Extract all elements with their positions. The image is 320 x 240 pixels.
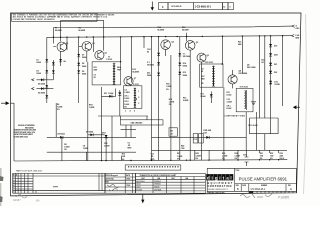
svg-text:3,3ØØ: 3,3ØØ bbox=[124, 92, 130, 94]
resistor R6 label bbox=[57, 104, 63, 111]
svg-text:DEC-2894: DEC-2894 bbox=[247, 66, 255, 69]
wire x101.5 down bbox=[101, 87, 103, 161]
svg-text:15: 15 bbox=[223, 6, 225, 8]
svg-text:UNLESS OTHERWISE: UNLESS OTHERWISE bbox=[18, 125, 35, 127]
label D8 bbox=[82, 63, 86, 68]
revision strip box drawing number bbox=[194, 3, 223, 10]
svg-text:4 2: 4 2 bbox=[13, 184, 15, 187]
svg-text:DEC: DEC bbox=[142, 178, 146, 180]
svg-text:C11: C11 bbox=[170, 130, 173, 132]
transistor Q3 bbox=[95, 51, 107, 60]
svg-text:E: E bbox=[290, 188, 292, 191]
svg-text:1-CS-6691-Ø-1: 1-CS-6691-Ø-1 bbox=[195, 6, 212, 9]
wire right edge column bbox=[282, 36, 284, 106]
wire diode column x177.2 bbox=[179, 37, 181, 161]
wire branch h96.3 bbox=[102, 89, 116, 97]
resistor R12 label bbox=[132, 69, 139, 74]
svg-text:86,ØØØ: 86,ØØØ bbox=[182, 30, 189, 32]
wire x120.6 stub bbox=[120, 37, 122, 62]
revision arrow top bbox=[151, 2, 154, 11]
svg-text:DRN M.Bergquist: DRN M.Bergquist bbox=[106, 174, 119, 177]
wire mid h137.5 left bbox=[47, 136, 136, 138]
svg-text:2 4: 2 4 bbox=[13, 179, 15, 182]
dotted pin strip bbox=[125, 165, 181, 170]
label D14 bbox=[183, 62, 187, 68]
wire diode chain D7 column bbox=[78, 37, 80, 103]
svg-text:D-662: D-662 bbox=[124, 98, 129, 100]
svg-text:DEC2894: DEC2894 bbox=[136, 181, 144, 183]
svg-text:Q7: Q7 bbox=[134, 78, 136, 80]
diode D5 horizontal bbox=[38, 78, 45, 85]
svg-text:ECO 6691-Ø: ECO 6691-Ø bbox=[172, 6, 182, 8]
svg-text:+1ØV: +1ØV bbox=[295, 28, 300, 30]
svg-text:D662: D662 bbox=[136, 187, 141, 189]
diode D21 bbox=[269, 63, 277, 66]
svg-text:3: 3 bbox=[125, 110, 126, 112]
diode D7 bbox=[77, 54, 80, 57]
svg-text:24Ø: 24Ø bbox=[280, 155, 284, 158]
resistor R22 cluster bbox=[177, 153, 183, 160]
svg-text:R19: R19 bbox=[182, 27, 185, 29]
title block size code row bbox=[236, 184, 293, 192]
wire R13 stub bbox=[121, 156, 123, 161]
svg-text:D664: D664 bbox=[82, 56, 86, 59]
wire C8 stub bbox=[85, 152, 87, 161]
resistor R16 label bbox=[183, 98, 189, 103]
wire x144 stub bbox=[143, 37, 145, 48]
svg-text:5%: 5% bbox=[260, 158, 263, 160]
wire input diode branch 2 bbox=[32, 87, 54, 89]
revision strip box ECO bbox=[159, 3, 169, 10]
wire x170.9 long bbox=[170, 55, 172, 160]
revision strip box chk bbox=[223, 3, 229, 10]
svg-text:PNP: PNP bbox=[117, 70, 121, 72]
diode D12 dark vertical bbox=[118, 90, 121, 116]
diode D4A bbox=[59, 59, 66, 63]
label component side row bbox=[225, 115, 246, 117]
junction dots on ground rail bbox=[53, 35, 284, 38]
wire x222.5 stub bbox=[222, 36, 224, 64]
parts list tiny fill text bbox=[13, 175, 58, 194]
handwritten marks below title block bbox=[240, 193, 289, 200]
capacitor C18 on bus bbox=[243, 150, 249, 166]
diode D6 bbox=[45, 95, 48, 98]
label T5 pins bbox=[227, 92, 233, 110]
conversion chart entries bbox=[136, 181, 161, 192]
svg-text:68Ø: 68Ø bbox=[201, 78, 205, 80]
arrow below chart bbox=[141, 194, 144, 203]
revision strip box description bbox=[168, 3, 194, 10]
wire bottom right h133.7 bbox=[250, 118, 279, 134]
transformer T2 winding bbox=[134, 88, 136, 108]
label D7 bbox=[82, 54, 86, 59]
svg-text:T2: T2 bbox=[128, 84, 130, 86]
wire input diode branch 1 bbox=[32, 79, 54, 81]
svg-text:86,ØØØ: 86,ØØØ bbox=[132, 72, 139, 74]
wire mid h137.4 right bbox=[152, 136, 247, 138]
capacitor C16 label bbox=[261, 59, 264, 64]
svg-text:R C D: R C D bbox=[13, 175, 18, 177]
transistor Q4 bbox=[161, 40, 174, 50]
parts list heading bbox=[16, 170, 42, 173]
transistor Q2 bbox=[79, 42, 95, 52]
svg-text:1Ø Ø7: 1Ø Ø7 bbox=[13, 198, 21, 202]
resistor R10 label bbox=[89, 105, 95, 110]
input arrow left margin bbox=[1, 101, 9, 105]
svg-text:D19: D19 bbox=[274, 45, 277, 47]
wire R1 column bbox=[52, 28, 54, 80]
svg-text:5%: 5% bbox=[270, 158, 273, 160]
svg-text:2R: 2R bbox=[201, 83, 204, 85]
svg-text:i: i bbox=[212, 176, 213, 181]
label D12 bbox=[147, 72, 151, 77]
svg-text:REV.: REV. bbox=[288, 185, 292, 187]
svg-text:2N D662: 2N D662 bbox=[147, 64, 154, 66]
connector A +10V bbox=[292, 24, 300, 30]
resistor R13 cluster bbox=[122, 154, 126, 161]
wire x246.2 below T5 bbox=[245, 112, 247, 151]
svg-text:Q5: Q5 bbox=[196, 42, 198, 44]
svg-text:D664: D664 bbox=[82, 65, 86, 68]
svg-text:D6 D664: D6 D664 bbox=[38, 91, 45, 94]
svg-text:6,8ØØ: 6,8ØØ bbox=[104, 146, 110, 148]
label T1 right pins bbox=[117, 67, 121, 72]
svg-text:CR-3 D-662: CR-3 D-662 bbox=[248, 125, 258, 127]
svg-text:1N748: 1N748 bbox=[136, 190, 142, 192]
svg-text:5%: 5% bbox=[166, 89, 169, 91]
drawing control table bbox=[105, 173, 136, 193]
wire Q7 collector bbox=[128, 85, 130, 87]
resistor R29 cluster bbox=[222, 153, 228, 160]
resistor R23 label bbox=[238, 42, 242, 47]
resistor R32 cluster bbox=[270, 153, 274, 160]
svg-text:THIS SCHEMATIC IS FURNISHED ON: THIS SCHEMATIC IS FURNISHED ONLY FOR TES… bbox=[13, 13, 115, 16]
svg-text:A: A bbox=[296, 24, 298, 27]
resistor R15 label bbox=[166, 84, 172, 91]
diode D11 bbox=[157, 62, 160, 65]
svg-text:R14: R14 bbox=[158, 26, 161, 29]
transformer T4 winding bbox=[212, 66, 215, 87]
svg-text:1/7/66: 1/7/66 bbox=[126, 185, 130, 187]
wire Q8 collector bbox=[232, 70, 234, 88]
svg-text:D22: D22 bbox=[274, 72, 277, 74]
svg-text:l: l bbox=[230, 176, 231, 181]
svg-text:SIZE: SIZE bbox=[236, 185, 239, 187]
svg-text:CORPORATION: CORPORATION bbox=[208, 185, 232, 188]
label Q8 DEC type bbox=[239, 71, 247, 76]
svg-text:D664: D664 bbox=[37, 72, 41, 75]
diode D15 bbox=[178, 72, 181, 75]
zener D23 bbox=[269, 81, 280, 86]
wire R9 stub bbox=[61, 137, 63, 161]
svg-text:R2: R2 bbox=[79, 27, 81, 29]
svg-text:6,8ØØ: 6,8ØØ bbox=[183, 100, 189, 102]
wire diode column x158.6 bbox=[158, 37, 160, 161]
svg-text:DATE: DATE bbox=[126, 174, 130, 177]
diode D20 bbox=[269, 53, 278, 56]
diode D2 bbox=[45, 70, 48, 73]
capacitor C11 box bbox=[169, 128, 177, 136]
diode D14 bbox=[178, 63, 181, 66]
svg-text:D11: D11 bbox=[104, 93, 107, 95]
resistor R12A cluster bbox=[104, 143, 110, 148]
svg-text:4: 4 bbox=[130, 109, 131, 112]
diode D9A horizontal bbox=[86, 130, 93, 136]
svg-text:D664: D664 bbox=[183, 74, 187, 77]
wire ground bus bottom bbox=[14, 160, 287, 161]
diode D1 bbox=[45, 59, 48, 62]
svg-text:5%: 5% bbox=[235, 158, 238, 160]
svg-text:86,ØØØ: 86,ØØØ bbox=[158, 30, 165, 32]
svg-text:D664: D664 bbox=[136, 184, 141, 186]
title block printed circuit rev row bbox=[208, 191, 293, 194]
resistor R18 label bbox=[169, 99, 175, 106]
svg-text:COMPONENT SIDE: COMPONENT SIDE bbox=[225, 115, 246, 117]
resistor R26 cluster bbox=[181, 145, 185, 150]
parts list table bbox=[13, 173, 105, 193]
label D17 bbox=[201, 93, 206, 98]
diode D8A horizontal on bus bbox=[58, 132, 65, 138]
junction dots on bottom bus bbox=[101, 159, 279, 161]
svg-text:TRANSISTOR & DIODE CONVERSION: TRANSISTOR & DIODE CONVERSION CHART bbox=[140, 174, 178, 177]
label T4 pins bbox=[201, 68, 205, 85]
svg-text:68Ø: 68Ø bbox=[238, 44, 242, 46]
wire resistor stubs to bus right bbox=[195, 150, 279, 160]
svg-text:D-662: D-662 bbox=[227, 95, 232, 97]
wire x120.5 bbox=[120, 116, 122, 120]
handwritten mark below parts list bbox=[13, 194, 40, 202]
diode D3 bbox=[52, 62, 55, 65]
diode D4 bbox=[52, 70, 55, 73]
wire ground rail bbox=[47, 36, 292, 38]
label T2 bottom pins bbox=[125, 109, 135, 112]
wire x191 Q5 down bbox=[189, 50, 191, 160]
svg-text:D-662: D-662 bbox=[227, 108, 232, 110]
svg-text:i: i bbox=[219, 176, 220, 181]
diode D10 bbox=[157, 53, 160, 56]
node T1 top right bbox=[120, 61, 121, 62]
wire x131.6 bbox=[131, 37, 133, 83]
svg-text:C18: C18 bbox=[243, 154, 246, 156]
diode D8 bbox=[77, 63, 80, 66]
svg-text:D21: D21 bbox=[274, 64, 277, 66]
svg-text:D-664: D-664 bbox=[108, 92, 113, 95]
svg-text:C13: C13 bbox=[194, 139, 197, 141]
capacitor C9 cluster bbox=[128, 142, 133, 149]
wire Q2 emitter column bbox=[86, 51, 88, 62]
label D9 bbox=[82, 71, 86, 76]
diode D9 bbox=[77, 70, 80, 73]
wire Q6 emitter bbox=[201, 62, 203, 160]
svg-text:86,ØØØ: 86,ØØØ bbox=[55, 30, 62, 32]
wire x151.5 long bbox=[151, 37, 153, 161]
resistor R2 label bbox=[79, 27, 86, 32]
svg-text:2R: 2R bbox=[124, 106, 127, 108]
transformer T2 box bbox=[123, 84, 141, 108]
wire Q4 bottom bbox=[165, 49, 167, 56]
transistor Q8 bbox=[228, 75, 237, 84]
resistor R11 label inside T1 bbox=[94, 67, 98, 79]
resistor R30 cluster bbox=[235, 153, 241, 160]
svg-text:P1ØØ5: P1ØØ5 bbox=[278, 196, 289, 200]
wire x93 stub bbox=[92, 37, 94, 52]
svg-text:D5 D664: D5 D664 bbox=[38, 83, 45, 86]
ground symbol T5 bbox=[251, 102, 256, 105]
border frame bbox=[11, 13, 302, 196]
wire left h155.7 bbox=[47, 151, 136, 153]
notes unless otherwise indicated bbox=[14, 125, 37, 139]
svg-text:1N748A: 1N748A bbox=[154, 189, 162, 192]
scan page edge shadow right bbox=[304, 14, 307, 194]
svg-text:D1Ø: D1Ø bbox=[102, 133, 106, 135]
svg-text:g: g bbox=[215, 176, 218, 181]
svg-text:82: 82 bbox=[201, 71, 203, 73]
svg-text:5%: 5% bbox=[169, 104, 172, 106]
svg-text:C4: C4 bbox=[124, 89, 126, 92]
svg-text:MAYNARD. MASSACHUSETTS: MAYNARD. MASSACHUSETTS bbox=[208, 188, 228, 191]
capacitor C8 cluster bbox=[83, 146, 89, 151]
capacitor C12 cluster bbox=[151, 154, 156, 161]
svg-text:D8 D664: D8 D664 bbox=[58, 132, 65, 135]
label U2 bbox=[247, 64, 255, 69]
svg-text:D664: D664 bbox=[183, 65, 187, 68]
capacitor C13 box bbox=[193, 134, 203, 143]
transformer T1 winding bbox=[113, 63, 116, 85]
svg-text:TITLE: TITLE bbox=[235, 170, 239, 172]
wire h116 bbox=[98, 115, 148, 117]
svg-text:5%: 5% bbox=[196, 158, 199, 160]
transistor Q1 bbox=[53, 42, 68, 52]
wire x242.4 stub bbox=[241, 36, 243, 74]
label D15 bbox=[183, 72, 187, 77]
svg-text:CHK R.Hills: CHK R.Hills bbox=[106, 179, 115, 181]
svg-text:1.5MF: 1.5MF bbox=[83, 148, 89, 150]
scan edge mark bottom-left bbox=[0, 168, 4, 206]
wire x264.8 bbox=[264, 36, 266, 150]
diode D18 dark horizontal bbox=[204, 130, 212, 139]
diode D17 dark bbox=[210, 92, 213, 104]
svg-text:68Ø: 68Ø bbox=[94, 70, 98, 72]
svg-text:75Ø: 75Ø bbox=[181, 148, 185, 150]
svg-text:1,8ØØ: 1,8ØØ bbox=[89, 107, 95, 109]
delay line box bbox=[121, 120, 164, 125]
label D13 bbox=[183, 54, 190, 59]
svg-text:D664: D664 bbox=[37, 61, 41, 64]
svg-text:D14: D14 bbox=[183, 62, 186, 65]
svg-text:.Ø1: .Ø1 bbox=[261, 62, 264, 64]
wire x223.9 down bbox=[223, 87, 225, 160]
resistor R9 cluster bbox=[64, 144, 70, 151]
svg-text:3: 3 bbox=[162, 6, 164, 9]
transistor Q5 bbox=[185, 41, 198, 51]
svg-text:PULSE AMPLIFIER 6691: PULSE AMPLIFIER 6691 bbox=[239, 177, 288, 182]
svg-text:6 2: 6 2 bbox=[13, 192, 15, 194]
svg-text:MFD: MFD bbox=[128, 148, 133, 150]
svg-text:5%: 5% bbox=[122, 159, 125, 161]
svg-text:D-664: D-664 bbox=[201, 95, 206, 98]
svg-text:5% B: 5% B bbox=[280, 158, 285, 160]
svg-text:d: d bbox=[207, 176, 210, 181]
svg-text:PRINTED CIRCUIT REV.: PRINTED CIRCUIT REV. bbox=[208, 192, 225, 194]
svg-text:D18: D18 bbox=[204, 132, 207, 134]
svg-text:PARTS LIST A-PL 66Ø-Ø-Ø: PARTS LIST A-PL 66Ø-Ø-Ø bbox=[16, 170, 42, 173]
wire stub x67 bbox=[66, 37, 68, 50]
revision strip box rev bbox=[228, 3, 234, 10]
capacitor C10 label bbox=[147, 49, 151, 54]
svg-text:DEC: DEC bbox=[172, 178, 176, 180]
svg-text:T4 F-5132: T4 F-5132 bbox=[205, 61, 213, 64]
wire x186.6 R19 column bbox=[186, 33, 188, 41]
conversion chart table bbox=[136, 173, 206, 193]
wire x90.7 T1 left bbox=[87, 62, 89, 161]
svg-text:5%: 5% bbox=[64, 149, 67, 151]
diode D5 bbox=[45, 85, 48, 88]
svg-text:F-5132: F-5132 bbox=[106, 59, 112, 61]
wire diode column x270.6 bbox=[270, 36, 272, 134]
diode D13 bbox=[178, 53, 181, 56]
wire bus left end drop bbox=[11, 103, 15, 161]
wire R6 stub bbox=[55, 103, 57, 137]
svg-text:1N645: 1N645 bbox=[154, 187, 160, 189]
svg-text:3: 3 bbox=[230, 6, 231, 8]
svg-text:5: 5 bbox=[134, 110, 135, 112]
svg-text:1N3606: 1N3606 bbox=[154, 184, 161, 186]
svg-text:D2Ø: D2Ø bbox=[274, 55, 278, 57]
transformer T1 box bbox=[92, 56, 121, 85]
svg-text:D664: D664 bbox=[147, 74, 151, 77]
label D11 bbox=[147, 62, 154, 67]
svg-text:5%: 5% bbox=[177, 158, 180, 160]
svg-text:1/7/66: 1/7/66 bbox=[126, 179, 130, 181]
wire bottom right h118 bbox=[250, 117, 279, 119]
svg-text:1 2: 1 2 bbox=[13, 177, 15, 179]
notes box top-left bbox=[12, 13, 115, 21]
svg-text:1: 1 bbox=[138, 91, 139, 93]
svg-text:GND: GND bbox=[295, 37, 300, 39]
arrow right margin pointing left bbox=[293, 105, 300, 109]
diode D6 horizontal bbox=[38, 87, 45, 94]
wire x136 below T2 bbox=[136, 98, 138, 100]
svg-text:CS 6691-Ø-1: CS 6691-Ø-1 bbox=[251, 188, 266, 191]
svg-text:Q6: Q6 bbox=[206, 55, 208, 57]
svg-text:a: a bbox=[226, 176, 229, 181]
svg-text:Q4: Q4 bbox=[171, 40, 173, 43]
svg-text:3,3ØØ: 3,3ØØ bbox=[227, 101, 233, 103]
svg-text:D664: D664 bbox=[82, 73, 86, 76]
wire x106 down bbox=[105, 135, 107, 161]
wire diode chain D1 column bbox=[46, 37, 48, 103]
svg-text:86,ØØØ: 86,ØØØ bbox=[79, 30, 86, 32]
diode D10A dark bbox=[102, 133, 108, 138]
svg-text:3 1: 3 1 bbox=[13, 182, 15, 184]
title block outer bbox=[207, 168, 296, 193]
svg-text:82: 82 bbox=[94, 77, 96, 79]
resistor R25 cluster bbox=[196, 153, 202, 160]
title text bbox=[239, 177, 288, 182]
node T4 top right bbox=[222, 63, 223, 64]
svg-text:GND CHASSIS: GND CHASSIS bbox=[131, 121, 144, 124]
svg-text:CODE: CODE bbox=[242, 185, 246, 187]
diode D19 bbox=[269, 44, 277, 47]
transformer T4 box bbox=[200, 61, 223, 87]
svg-text:3: 3 bbox=[138, 103, 139, 105]
diode D12 bbox=[157, 73, 160, 76]
svg-text:5 1: 5 1 bbox=[13, 188, 15, 190]
label equipment corporation bbox=[208, 182, 234, 191]
wire x259.5 bbox=[259, 36, 261, 118]
wire top link Q1 to Q3 bbox=[61, 21, 104, 51]
svg-text:NUMBER: NUMBER bbox=[261, 185, 267, 187]
